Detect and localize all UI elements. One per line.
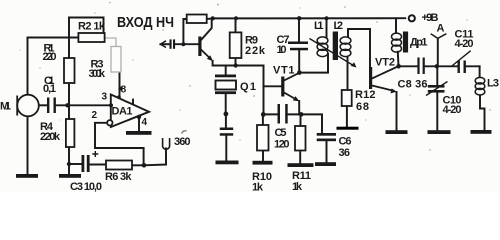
- wire T1 collector: [201, 18, 212, 40]
- svg-text:L2: L2: [334, 20, 344, 32]
- capacitor under Q1: [220, 128, 233, 136]
- DA1 pin4 stub: [138, 117, 140, 132]
- capacitor C7: [288, 42, 308, 51]
- wire R9 leads: [235, 18, 237, 65]
- wire VT1 emitter down: [298, 101, 300, 114]
- svg-text:C8 36: C8 36: [398, 79, 428, 91]
- crystal Q1: [215, 75, 236, 95]
- resistor R12: [342, 90, 352, 106]
- svg-text:L1: L1: [314, 20, 324, 32]
- svg-text:Q1: Q1: [240, 81, 256, 93]
- wire R11 leads: [299, 114, 301, 163]
- ground under R10: [253, 161, 273, 165]
- wire M1 to ground: [27, 117, 29, 175]
- socket X1 360: [163, 138, 170, 149]
- ground under R11: [288, 163, 314, 167]
- wire left column x69: [68, 18, 70, 175]
- terminal +9V: [409, 15, 415, 21]
- wire C11 links: [437, 65, 479, 67]
- op-amp DA1: [111, 95, 149, 128]
- wire M1 top rail: [28, 38, 79, 96]
- svg-text:ВХОД НЧ: ВХОД НЧ: [117, 14, 174, 31]
- svg-text:68: 68: [356, 101, 369, 113]
- resistor R2: [78, 33, 104, 42]
- svg-text:8: 8: [121, 85, 127, 96]
- wire L2 top to VT2 base: [348, 29, 370, 68]
- wire C7 stems: [298, 18, 300, 72]
- wire input arrow shaft: [161, 43, 170, 45]
- svg-text:M1: M1: [0, 101, 11, 113]
- svg-text:0,1: 0,1: [43, 83, 56, 95]
- wire L1 leads: [299, 18, 328, 72]
- svg-text:L3: L3: [487, 78, 499, 90]
- inductor L3: [475, 77, 485, 95]
- wire Q1 leads: [225, 66, 228, 161]
- capacitor C11 trimmer: [458, 61, 466, 74]
- choke Dr1 core: [403, 32, 408, 53]
- wire DA1 pin2 loop: [95, 123, 144, 166]
- svg-text:4: 4: [142, 117, 148, 128]
- wire R2 to R3 (faded): [105, 38, 116, 47]
- resistor R0 input: [187, 15, 207, 24]
- ground under R4 node: [59, 174, 81, 178]
- resistor R11: [295, 126, 306, 151]
- wire T1 emitter run: [213, 61, 264, 66]
- wire node to C3: [69, 163, 82, 165]
- svg-text:VT1: VT1: [273, 65, 295, 77]
- svg-text:VT2: VT2: [375, 57, 395, 69]
- wire node up to R0: [183, 19, 186, 44]
- wire C8 links: [399, 65, 438, 67]
- svg-text:10: 10: [277, 44, 287, 56]
- wire R6 to node: [132, 164, 144, 166]
- svg-text:360: 360: [174, 136, 191, 148]
- svg-text:220: 220: [43, 51, 57, 63]
- svg-text:R2 1k: R2 1k: [78, 21, 106, 33]
- ground under L3: [471, 130, 492, 134]
- capacitor C8: [417, 58, 424, 75]
- wire C10 stems: [436, 66, 438, 130]
- DA1 pin7 stub: [132, 100, 134, 105]
- wire VT2 emitter down: [396, 92, 398, 130]
- svg-text:120: 120: [274, 139, 290, 151]
- wire C5 links: [263, 113, 301, 115]
- svg-text:R6 3k: R6 3k: [105, 171, 132, 183]
- resistor R3 (faded): [111, 47, 121, 73]
- capacitor input (unlabeled): [170, 39, 176, 48]
- wire L3 leads: [480, 66, 485, 130]
- transistor T1: [198, 37, 213, 62]
- svg-text:R12: R12: [355, 89, 376, 101]
- input arrow: [161, 41, 167, 48]
- wire to C6: [301, 114, 326, 162]
- resistor R9: [230, 32, 242, 58]
- svg-text:Др1: Др1: [410, 37, 428, 49]
- svg-text:DA1: DA1: [112, 106, 133, 118]
- capacitor C10 trimmer: [428, 85, 445, 93]
- wire node to socket X1: [144, 149, 166, 166]
- ground under VT2: [386, 130, 408, 134]
- ground under M1: [16, 174, 38, 178]
- resistor R10: [257, 125, 269, 151]
- choke Dr1: [392, 33, 402, 52]
- resistor R1: [64, 58, 75, 83]
- ground under Q1 cap: [216, 161, 239, 165]
- transformer core: [333, 32, 338, 61]
- wire M1 to C1: [39, 104, 47, 106]
- tuning arrow through L1 L2: [310, 39, 356, 67]
- ground under C6: [315, 162, 336, 166]
- capacitor C5: [278, 104, 288, 124]
- wire R10 leads: [262, 114, 264, 160]
- wire R12 to ground: [346, 106, 348, 127]
- capacitor C1: [47, 98, 56, 114]
- wire input cap to T1 base: [175, 43, 199, 45]
- inductor L1: [317, 37, 328, 57]
- svg-text:A: A: [437, 23, 445, 35]
- svg-text:300k: 300k: [89, 68, 106, 80]
- capacitor C6: [317, 133, 336, 141]
- wire L2 bottom to R12: [347, 57, 349, 90]
- transistor VT1: [281, 73, 299, 101]
- wire top supply rail: [213, 17, 406, 19]
- ground under R12: [337, 127, 359, 130]
- resistor R4: [66, 119, 75, 147]
- svg-text:C3 10,0: C3 10,0: [70, 181, 102, 192]
- svg-text:4-20: 4-20: [455, 38, 474, 50]
- svg-text:C5: C5: [275, 127, 287, 139]
- C3 plus sign: [92, 151, 98, 157]
- wire R0 to rail: [207, 18, 213, 21]
- svg-text:3: 3: [102, 92, 108, 103]
- inductor L2: [340, 37, 351, 57]
- ground DA1 pin4: [126, 131, 152, 135]
- wire VT1 base column: [263, 66, 281, 114]
- scan speckles: [20, 2, 491, 151]
- resistor R6: [106, 161, 132, 170]
- microphone M1: [17, 95, 39, 117]
- wire C1 to DA1 pin3: [56, 104, 111, 106]
- svg-text:220k: 220k: [40, 131, 61, 143]
- svg-text:36: 36: [339, 147, 351, 159]
- wire C3 to R6: [90, 164, 107, 166]
- capacitor C3 electrolytic: [82, 155, 90, 172]
- svg-text:1k: 1k: [292, 181, 303, 192]
- svg-text:1k: 1k: [252, 182, 264, 193]
- svg-text:22k: 22k: [245, 45, 266, 57]
- svg-text:C6: C6: [339, 136, 352, 148]
- DA1 pin2 bubble: [107, 120, 112, 125]
- wire top bracket over R2: [69, 18, 104, 32]
- antenna stem: [437, 38, 439, 66]
- svg-text:4-20: 4-20: [443, 104, 462, 116]
- antenna A symbol: [431, 34, 447, 39]
- svg-text:2: 2: [92, 110, 98, 121]
- squiggle above 360: [182, 131, 187, 134]
- transistor VT2: [369, 67, 398, 94]
- wire R3 bottom to DA1 pin8: [119, 72, 121, 97]
- wire Dr1 leads: [396, 18, 399, 66]
- DA1 pin numbers: [92, 85, 148, 129]
- ground under C10: [428, 130, 451, 134]
